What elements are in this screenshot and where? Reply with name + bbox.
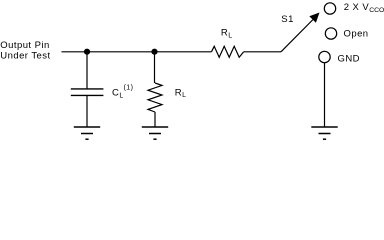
svg-text:Open: Open — [344, 28, 369, 39]
svg-text:Under Test: Under Test — [0, 51, 50, 62]
terminal circle: Open — [325, 28, 336, 39]
resistor RL (horizontal, series) — [212, 46, 244, 57]
wire: GND terminal to ground — [324, 63, 326, 127]
ground under GND terminal — [311, 127, 337, 139]
svg-text:CL: CL — [112, 88, 124, 100]
terminal circle: GND — [319, 51, 330, 62]
ground under vertical resistor — [142, 127, 168, 139]
svg-text:GND: GND — [338, 54, 360, 65]
node junction at capacitor branch — [84, 49, 90, 55]
wire: resistor RL top lead — [154, 52, 156, 83]
capacitor CL — [71, 89, 104, 96]
wire: resistor RL bottom lead — [154, 112, 156, 127]
svg-text:RL: RL — [175, 87, 187, 99]
resistor RL (vertical) — [148, 83, 162, 112]
svg-text:(1): (1) — [124, 85, 134, 92]
ground under capacitor — [74, 127, 100, 139]
label CL(1) — [112, 85, 133, 100]
node: Output Pin Under Test label — [0, 40, 50, 62]
node junction at resistor branch — [151, 49, 157, 55]
svg-text:Output Pin: Output Pin — [0, 40, 49, 51]
switch S1 arm with arrowhead — [281, 13, 320, 52]
wire: capacitor top lead — [86, 52, 88, 89]
svg-text:2 X VCCO: 2 X VCCO — [344, 2, 384, 14]
wire: capacitor bottom lead — [86, 95, 88, 126]
svg-text:RL: RL — [221, 28, 233, 40]
svg-text:S1: S1 — [281, 14, 294, 25]
terminal circle: 2 X VCCO — [324, 3, 335, 14]
wire: main horizontal net from output pin to switch — [62, 51, 282, 53]
